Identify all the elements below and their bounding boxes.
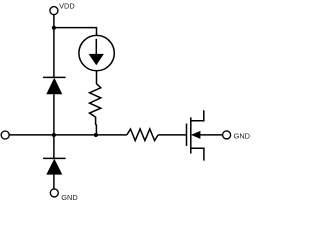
wire D1 to main node: [53, 94, 55, 135]
diode D2 cathode bar: [43, 157, 66, 159]
current source I1 arrow shaft: [95, 39, 97, 56]
terminal GND right circle: [223, 131, 231, 139]
resistor R2 horizontal zigzag: [127, 129, 158, 141]
mosfet M1 channel bar: [190, 117, 192, 153]
svg-text:GND: GND: [234, 132, 250, 141]
terminal input circle: [1, 131, 9, 139]
wire VDD to top junction: [53, 15, 55, 28]
mosfet M1 gate bar: [186, 124, 188, 147]
wire left vertical junction to D1: [53, 28, 55, 78]
mosfet M1 source stub: [191, 148, 204, 160]
wire main node to D2: [53, 135, 55, 158]
mosfet M1 body arrow: [191, 131, 201, 139]
terminal VDD circle: [50, 7, 58, 15]
diode D1 cathode bar: [43, 76, 66, 78]
junction dot top: [52, 26, 56, 30]
mosfet M1 drain stub: [191, 110, 204, 121]
mosfet M1 body wire to GND: [200, 134, 223, 136]
wire R2 to gate: [158, 134, 186, 136]
terminal GND bottom circle: [50, 189, 58, 197]
junction dot right on main wire: [94, 133, 98, 137]
wire D2 to GND terminal: [53, 175, 55, 189]
svg-text:GND: GND: [61, 193, 77, 202]
diode D1 triangle: [46, 78, 62, 95]
wire input terminal to resistor R2: [9, 134, 127, 136]
diode D2 triangle: [46, 159, 62, 175]
wire top junction to current source branch: [54, 28, 97, 36]
junction dot left on main wire: [52, 133, 56, 137]
current source I1 arrowhead: [89, 54, 104, 65]
resistor R1 vertical zigzag: [90, 71, 101, 135]
current source I1 circle: [79, 35, 114, 70]
svg-text:VDD: VDD: [59, 2, 75, 11]
